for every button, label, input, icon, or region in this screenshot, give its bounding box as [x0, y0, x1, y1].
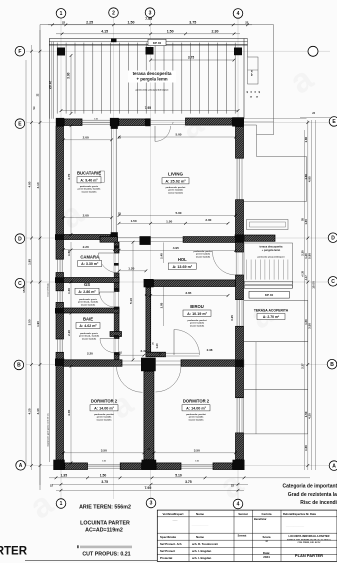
dim dormitor height — [67, 365, 73, 464]
title block data — [263, 551, 270, 559]
svg-text:1.50: 1.50 — [67, 250, 71, 256]
svg-text:~~~~: ~~~~ — [172, 521, 178, 523]
grid bubble F left — [15, 46, 25, 56]
dim left rooms heights — [67, 242, 73, 360]
svg-text:GS: GS — [84, 282, 90, 287]
svg-text:A: 25.02 m²: A: 25.02 m² — [165, 179, 186, 183]
grid bubble 2 top — [109, 8, 119, 18]
svg-text:A: 10.19 m²: A: 10.19 m² — [187, 312, 207, 316]
door threshold baie — [115, 339, 119, 353]
partition kitchen-living lines — [112, 129, 117, 232]
room terasa acoperita — [254, 309, 289, 320]
svg-text:A: 13.69 m²: A: 13.69 m² — [172, 265, 192, 269]
window parapet texts bottom — [94, 119, 199, 463]
svg-text:2.25: 2.25 — [86, 20, 93, 24]
KP 40 label left rotated — [48, 81, 52, 90]
dim strip right tier1 — [304, 120, 309, 470]
svg-text:2.00: 2.00 — [83, 213, 89, 217]
wall bedrooms top W — [64, 360, 123, 367]
grid bubble B left — [14, 360, 24, 370]
svg-text:Semnat: Semnat — [238, 535, 247, 538]
svg-text:1.30: 1.30 — [67, 288, 71, 294]
svg-text:KP 40: KP 40 — [265, 293, 274, 297]
dimension line top tier1 — [48, 17, 252, 26]
grid bubble 4 bottom — [233, 499, 243, 509]
corridor wall left seg2 — [115, 273, 120, 292]
svg-text:1.40: 1.40 — [159, 253, 163, 259]
svg-text:B: B — [17, 363, 21, 369]
window gs left — [58, 291, 63, 303]
svg-text:1.50: 1.50 — [167, 29, 174, 33]
svg-text:A: 2.70 m²: A: 2.70 m² — [263, 315, 280, 319]
svg-text:3.65: 3.65 — [185, 291, 191, 295]
room baie — [76, 316, 100, 340]
dimension 3.00 terrace — [67, 54, 73, 115]
svg-text:5.80: 5.80 — [308, 253, 312, 259]
svg-text:Referat/Expertiza Nr. Data: Referat/Expertiza Nr. Data — [283, 512, 316, 516]
wall living-hol column — [140, 236, 151, 245]
dim strip left tier2 — [36, 30, 41, 485]
lot boundary line top — [40, 24, 274, 26]
wall camara-gs — [64, 278, 120, 283]
svg-text:tavane lavabila: tavane lavabila — [189, 418, 205, 421]
platform outline upper right — [244, 118, 307, 201]
dim 325 right wall — [230, 315, 234, 321]
svg-text:5.00: 5.00 — [175, 211, 181, 215]
svg-text:tavane lavabila: tavane lavabila — [82, 190, 98, 193]
svg-text:5.10: 5.10 — [175, 473, 182, 477]
svg-text:A: 2.86 m²: A: 2.86 m² — [78, 290, 96, 294]
title block project name — [287, 534, 332, 544]
svg-text:2024: 2024 — [263, 555, 270, 559]
dim strip left tier1 — [27, 45, 33, 470]
door jamb blocks corridor — [114, 246, 119, 356]
grid bubble 1 bottom — [56, 499, 66, 509]
svg-text:D: D — [18, 236, 22, 242]
bottom frame line — [25, 560, 337, 562]
svg-text:LOCUINTA INDIVIDUALA PARTER: LOCUINTA INDIVIDUALA PARTER — [289, 534, 330, 538]
grid bubble D right — [328, 233, 337, 243]
partition kitchen-living end bottom — [111, 232, 118, 241]
svg-text:1: 1 — [60, 501, 63, 507]
pergola2 parapet — [245, 235, 276, 241]
dim corridor height — [129, 241, 135, 361]
title block scara — [263, 535, 271, 543]
svg-text:Proiectat: Proiectat — [160, 556, 172, 560]
dim baie bottom — [87, 351, 93, 355]
wall bottom column center black — [142, 460, 157, 470]
dim bottom tier1 — [49, 473, 310, 479]
wall left node baie-dorm — [55, 359, 64, 367]
dim 22 right top — [300, 112, 330, 118]
right inner line — [255, 342, 257, 434]
corridor wall left seg4 — [115, 337, 120, 339]
grid bubble 3 bottom — [146, 498, 156, 508]
window baie left — [58, 339, 63, 352]
svg-text:TERASA ACOPERITA: TERASA ACOPERITA — [254, 309, 289, 313]
street text left — [33, 106, 49, 446]
svg-text:4.15: 4.15 — [101, 29, 108, 33]
dim strip left 15m — [22, 60, 26, 466]
dim kitchen top — [62, 135, 121, 141]
opening hol-corridor — [118, 237, 140, 241]
terrace2 label — [258, 245, 285, 259]
wall bottom seg mid-right — [156, 463, 181, 470]
svg-text:_______________: _______________ — [191, 525, 210, 527]
svg-text:tavane lavabila: tavane lavabila — [81, 303, 96, 306]
wall bottom seg W — [65, 463, 88, 470]
svg-text:pardoseala: parchet: pardoseala: parchet — [166, 186, 186, 189]
dim corridor width — [118, 267, 148, 273]
svg-text:pardoseala: placaj antiderapan: pardoseala: placaj antiderapant — [258, 256, 285, 259]
entrance door lines — [151, 121, 186, 125]
svg-text:4.90: 4.90 — [27, 181, 31, 187]
svg-text:4.95: 4.95 — [308, 176, 312, 182]
svg-text:Semnat: Semnat — [238, 512, 248, 516]
svg-text:+0.35: +0.35 — [303, 270, 305, 277]
room hol — [168, 250, 213, 269]
svg-text:2.30: 2.30 — [212, 29, 219, 33]
wall birou jog — [146, 352, 166, 357]
text categoria — [282, 484, 337, 490]
svg-text:3.25: 3.25 — [230, 315, 234, 321]
svg-text:LIVING: LIVING — [168, 172, 184, 177]
grid bubble A right — [329, 461, 337, 471]
wall left upper — [56, 126, 64, 259]
text RTER watermark big — [0, 546, 28, 558]
svg-text:pereti: lavabila: pereti: lavabila — [97, 416, 112, 419]
svg-text:1.50: 1.50 — [100, 473, 107, 477]
svg-text:5.10: 5.10 — [129, 298, 133, 304]
svg-text:1.20: 1.20 — [128, 267, 134, 271]
svg-text:PLAN PARTER: PLAN PARTER — [295, 553, 323, 558]
svg-text:7.95: 7.95 — [145, 17, 152, 21]
fence line left — [48, 39, 50, 463]
svg-text:15.00: 15.00 — [312, 281, 316, 289]
svg-text:1.50: 1.50 — [131, 219, 137, 223]
wall right seg4 — [236, 326, 244, 397]
door camara arc — [99, 253, 119, 273]
text locuinta parter — [80, 520, 130, 533]
svg-text:2: 2 — [112, 10, 115, 16]
svg-text:terasa descoperita: terasa descoperita — [260, 245, 283, 249]
svg-text:A: 3.30 m²: A: 3.30 m² — [81, 262, 99, 266]
svg-text:CAMARA: CAMARA — [80, 254, 99, 259]
grid column lines 1 2 3 4 — [61, 18, 238, 500]
wall right node living-hol — [235, 234, 244, 242]
svg-text:3.00: 3.00 — [67, 72, 71, 78]
room living — [162, 172, 189, 195]
svg-text:ARIE TEREN: 556m2: ARIE TEREN: 556m2 — [79, 505, 131, 511]
grid bubble E right — [329, 117, 337, 127]
svg-text:terasa descoperita: terasa descoperita — [133, 71, 172, 76]
svg-text:pardoseala: gresie: pardoseala: gresie — [79, 299, 98, 301]
dim kitchen bottom — [62, 212, 121, 220]
wall top segment W — [64, 119, 82, 126]
svg-text:7.95: 7.95 — [144, 486, 151, 490]
svg-text:2.47: 2.47 — [140, 349, 146, 353]
svg-text:1.85: 1.85 — [27, 259, 31, 265]
corridor wall left seg5 — [115, 353, 120, 360]
wall living-hol seg E — [183, 237, 235, 243]
svg-text:BAIE: BAIE — [83, 316, 93, 321]
wall bedrooms top column — [141, 358, 156, 372]
svg-text:Cerinta: Cerinta — [262, 512, 272, 516]
dim hol 140 — [159, 242, 163, 263]
svg-text:3.75: 3.75 — [189, 20, 196, 24]
svg-text:pardoseala: gresie: pardoseala: gresie — [80, 333, 99, 335]
svg-text:4: 4 — [237, 502, 240, 508]
svg-text:BUCATARIE: BUCATARIE — [77, 171, 101, 176]
door terasa opening — [236, 252, 243, 275]
svg-text:3.75: 3.75 — [185, 480, 192, 484]
door dormitor-right arc — [156, 366, 182, 392]
terrace step right — [248, 57, 259, 84]
svg-text:pardoseala: parchet: pardoseala: parchet — [94, 413, 114, 416]
svg-text:3.50: 3.50 — [194, 448, 200, 452]
title block plan parter — [295, 553, 323, 558]
svg-text:2.38: 2.38 — [207, 348, 213, 352]
lot boundary line right upper — [273, 25, 275, 135]
svg-text:tavane lavabila: tavane lavabila — [82, 337, 97, 340]
entrance door arc — [155, 123, 174, 141]
dim strip right tier2 — [308, 120, 312, 470]
dim strip right inner — [300, 130, 304, 470]
text risc — [300, 500, 337, 506]
corridor wall left seg3 — [115, 307, 120, 332]
steps right — [245, 281, 293, 288]
svg-text:KP 40: KP 40 — [48, 81, 52, 90]
svg-text:1.50: 1.50 — [102, 460, 106, 462]
wall left lower — [56, 352, 64, 460]
svg-text:3: 3 — [150, 501, 153, 507]
terrace label — [128, 71, 176, 92]
terasa acoperita outline — [244, 301, 308, 342]
svg-text:Verificat/Expert: Verificat/Expert — [162, 512, 183, 516]
svg-text:3.75: 3.75 — [101, 480, 108, 484]
window dormitor-right right — [237, 398, 242, 433]
watermark — [23, 59, 321, 527]
door terasa arc — [213, 252, 236, 275]
svg-text:Categoria de importanta: Categoria de importanta — [282, 484, 337, 490]
svg-text:pardoseala: placaj antiderapan: pardoseala: placaj antiderapant — [136, 89, 169, 92]
dim living bottom — [118, 211, 237, 217]
wall top corner NE black — [232, 117, 244, 126]
svg-text:arh. I. Bogdan: arh. I. Bogdan — [192, 556, 212, 560]
pergola slats — [57, 43, 235, 114]
svg-text:RTER: RTER — [0, 546, 28, 558]
svg-text:A: 14.00 m²: A: 14.00 m² — [186, 406, 206, 410]
room bucatarie — [77, 171, 101, 194]
svg-text:arh. I. Bogdan: arh. I. Bogdan — [192, 549, 212, 553]
svg-text:4.25: 4.25 — [308, 413, 312, 419]
svg-text:15.00: 15.00 — [22, 285, 26, 293]
svg-text:2.00: 2.00 — [83, 135, 89, 139]
wall central bedrooms — [144, 371, 154, 460]
svg-text:2.00: 2.00 — [205, 218, 211, 222]
room gs — [75, 282, 99, 307]
room dormitor2 left — [90, 399, 118, 422]
pergola2 slats — [244, 243, 293, 288]
title block row proiectat — [160, 556, 212, 560]
title block frame — [157, 510, 337, 561]
svg-text:C: C — [331, 279, 335, 285]
svg-text:1.90: 1.90 — [36, 321, 40, 327]
svg-text:DORMITOR 2: DORMITOR 2 — [183, 399, 210, 404]
svg-text:pereti: lavabila: pereti: lavabila — [190, 322, 205, 325]
svg-text:A: 4.62 m²: A: 4.62 m² — [79, 324, 97, 328]
svg-text:4.10: 4.10 — [36, 182, 40, 188]
door dormitor-left arc — [117, 366, 143, 392]
door threshold gs — [115, 292, 119, 307]
svg-text:D: D — [331, 235, 335, 241]
svg-text:1.50: 1.50 — [195, 460, 199, 462]
gray smudge — [77, 545, 132, 548]
dim living windows — [118, 218, 230, 225]
svg-text:AC=AD=119m2: AC=AD=119m2 — [85, 527, 123, 533]
door threshold dormitor-left — [122, 361, 143, 365]
door gs arc — [100, 292, 115, 307]
svg-text:3: 3 — [149, 10, 152, 16]
dim camara width — [62, 245, 116, 251]
wall bedrooms top E — [181, 360, 236, 367]
svg-text:pereti lavab., lavabila: pereti lavab., lavabila — [78, 301, 99, 304]
grid bubble 3 top — [145, 8, 155, 18]
svg-text:Str: Str — [33, 106, 36, 109]
svg-text:pereti: lavabila: pereti: lavabila — [168, 189, 183, 192]
svg-text:4.70: 4.70 — [67, 174, 71, 180]
wall camara top — [64, 235, 111, 240]
svg-text:LOCUINTA PARTER: LOCUINTA PARTER — [80, 520, 130, 526]
wall top corner NW black — [56, 118, 64, 126]
KP 40 box right — [249, 291, 289, 298]
title block beneficiar — [172, 517, 304, 527]
wall bottom corner SE black — [233, 460, 245, 470]
svg-text:4.40: 4.40 — [36, 408, 40, 414]
dimension 3.75 terrace — [149, 56, 235, 62]
svg-text:-1.17: -1.17 — [306, 275, 308, 281]
grid bubble B right — [327, 359, 337, 369]
svg-text:4.00: 4.00 — [67, 410, 71, 416]
svg-text:pardoseala: parchet: pardoseala: parchet — [186, 413, 206, 416]
corridor wall stub horizontal — [110, 332, 122, 337]
wall left node C — [55, 277, 64, 283]
svg-text:2.20: 2.20 — [83, 245, 89, 249]
svg-text:4: 4 — [237, 11, 240, 17]
svg-text:1.50: 1.50 — [94, 119, 98, 121]
svg-text:3.50: 3.50 — [308, 323, 312, 329]
dim strip right 15m — [312, 120, 316, 470]
svg-text:2.20: 2.20 — [87, 351, 93, 355]
svg-text:pardoseala: gresie: pardoseala: gresie — [80, 185, 99, 188]
dim dormright width — [148, 448, 237, 454]
wall left node D — [55, 234, 64, 240]
title block row sef proiect arh — [160, 542, 218, 546]
room camara — [78, 254, 102, 266]
KP 40 box top — [148, 39, 166, 45]
svg-text:arh. D. Teodorovici: arh. D. Teodorovici — [192, 542, 218, 546]
window birou right — [237, 300, 242, 327]
wall top door jamb — [145, 118, 150, 126]
grid bubble 4 top — [233, 9, 243, 19]
svg-text:+ pergola lemn: + pergola lemn — [136, 77, 167, 82]
text cut propus — [82, 552, 130, 558]
title block row sef proiect — [160, 549, 212, 553]
opening living-hol — [151, 237, 183, 241]
svg-text:22: 22 — [62, 20, 66, 24]
window dormitor-left bottom — [88, 464, 121, 468]
grid bubble C left — [15, 278, 25, 288]
svg-text:COM. PRIME, JUD. ILFOV: COM. PRIME, JUD. ILFOV — [298, 542, 322, 544]
corridor wall left stub top — [115, 242, 120, 253]
title block header — [162, 512, 316, 516]
svg-text:Risc de incendiu: Risc de incendiu — [300, 500, 337, 506]
svg-text:1/: 1/ — [265, 539, 268, 543]
svg-text:3.50: 3.50 — [101, 448, 107, 452]
svg-text:2.10: 2.10 — [67, 330, 71, 336]
dim dormleft width — [62, 448, 145, 454]
grid row lines F E D C B A — [26, 51, 330, 465]
terrace edge top — [49, 39, 247, 45]
svg-text:F: F — [18, 49, 21, 55]
svg-text:HOL: HOL — [178, 257, 187, 262]
svg-text:7.95: 7.95 — [145, 106, 151, 110]
grid bubble 1 top — [56, 9, 66, 19]
wall gs-baie — [64, 308, 120, 313]
wall bottom corner SW black — [53, 460, 64, 470]
pergola column grid4 — [234, 48, 242, 56]
wall hol-birou — [154, 280, 236, 287]
svg-text:KP 40: KP 40 — [153, 41, 162, 45]
svg-text:4.95: 4.95 — [173, 246, 179, 250]
terrace edge left — [49, 39, 53, 119]
svg-text:A: A — [19, 463, 23, 469]
window dormitor-right bottom — [181, 464, 213, 468]
svg-text:DORMITOR 2: DORMITOR 2 — [91, 399, 118, 404]
svg-text:pereti lavab., lavabila: pereti lavab., lavabila — [79, 335, 100, 338]
dim vestibule — [118, 352, 146, 357]
window living right — [237, 158, 242, 200]
dim birou 195 — [159, 287, 163, 327]
wall right seg2 — [236, 200, 244, 252]
wall right seg3 — [236, 275, 244, 300]
text grad — [288, 492, 337, 498]
door birou opening — [166, 353, 200, 356]
svg-text:imprejmuire gard spatiu verde: imprejmuire gard spatiu verde 10 cm — [46, 413, 49, 446]
svg-text:A: A — [332, 463, 336, 469]
text arie teren — [79, 505, 131, 511]
wall top segment E — [186, 118, 233, 125]
wall right seg1 — [236, 127, 244, 159]
svg-text:pereti lavabila, lavabila: pereti lavabila, lavabila — [78, 188, 101, 191]
svg-text:1.65: 1.65 — [304, 219, 308, 225]
svg-text:pereti: lavabila: pereti: lavabila — [189, 416, 204, 419]
window camara left — [58, 259, 63, 272]
svg-text:tavane lavabila: tavane lavabila — [190, 324, 205, 327]
svg-text:BIROU: BIROU — [190, 304, 204, 309]
kitchen fixture — [100, 171, 104, 182]
svg-text:_______________: _______________ — [285, 525, 305, 527]
dim doors bedrooms — [140, 342, 212, 356]
svg-text:Nume: Nume — [196, 512, 204, 516]
dim birou width — [145, 291, 230, 297]
wall top segment mid — [119, 119, 146, 126]
svg-text:1.35: 1.35 — [60, 473, 67, 477]
wall bottom seg E — [213, 463, 233, 470]
title block row specificatie — [160, 535, 247, 540]
dim living top — [118, 133, 237, 139]
svg-text:tavane lavabila: tavane lavabila — [196, 255, 211, 258]
